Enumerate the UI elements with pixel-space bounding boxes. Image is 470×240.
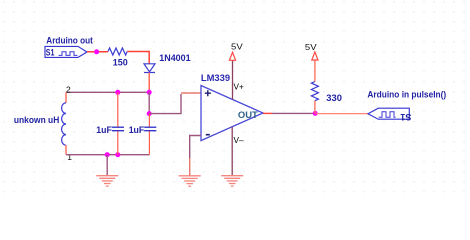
svg-text:V–: V– — [234, 136, 244, 145]
capacitor C1 plates — [112, 126, 124, 128]
wire OUT to junction — [263, 112, 272, 114]
bottom bus wire — [66, 154, 149, 156]
wire diode to top bus — [148, 73, 150, 93]
capacitor C2 plates — [144, 126, 156, 128]
ground 1 — [96, 176, 118, 186]
svg-text:5V: 5V — [305, 42, 317, 52]
junction dot1 — [147, 90, 152, 95]
capacitor C1 leads — [117, 92, 119, 127]
plus sign — [205, 90, 211, 96]
5V supply 2 — [312, 52, 318, 60]
svg-text:5V: 5V — [231, 41, 243, 51]
wire resistor to diode corner — [127, 52, 149, 64]
inductor L1 bottom lead — [65, 145, 67, 155]
wire junction to S2 — [315, 113, 368, 115]
pulse glyph S2 — [379, 112, 396, 118]
svg-text:LM339: LM339 — [201, 73, 230, 84]
svg-text:Arduino out: Arduino out — [46, 35, 93, 46]
wire to + input — [149, 94, 181, 114]
pin V+ wire — [232, 60, 234, 99]
junction dot under C1 — [115, 152, 120, 157]
connector S2 — [368, 108, 409, 119]
wire dot1 to dot2 — [148, 92, 150, 113]
pin V- wire — [231, 127, 233, 176]
pulse glyph S1 — [59, 52, 78, 56]
minus sign — [206, 134, 210, 136]
resistor R2 330 — [311, 82, 318, 101]
inductor L1 coil — [62, 103, 66, 145]
svg-text:Arduino in pulseIn(): Arduino in pulseIn() — [367, 89, 446, 99]
junction dot2 — [147, 111, 152, 116]
label S1 rotated — [400, 111, 412, 122]
svg-text:330: 330 — [326, 93, 342, 104]
svg-text:1N4001: 1N4001 — [159, 53, 191, 64]
svg-text:1uF: 1uF — [129, 125, 145, 136]
capacitor C2 leads — [148, 114, 150, 127]
junction dot A — [94, 49, 99, 54]
wire 5V to resistor R2 — [314, 60, 316, 81]
inductor L1 top lead — [65, 92, 67, 103]
junction dot out — [313, 111, 318, 116]
ground 2 — [179, 176, 201, 186]
junction dot over C1 — [115, 90, 120, 95]
diode D1 — [144, 64, 155, 72]
svg-text:V+: V+ — [234, 82, 244, 91]
op-amp U1 LM339 triangle — [201, 86, 263, 141]
svg-text:S1: S1 — [46, 48, 55, 59]
svg-text:2: 2 — [66, 84, 71, 94]
svg-text:1: 1 — [67, 152, 72, 162]
minus input stub to ground — [190, 136, 201, 159]
5V supply 1 — [229, 52, 235, 60]
wire resistor R2 to OUT node — [314, 101, 316, 114]
junction dot ground tap — [105, 152, 110, 157]
svg-text:150: 150 — [113, 57, 128, 68]
ground 3 — [221, 176, 243, 186]
resistor R1 150 — [108, 48, 127, 55]
svg-text:S1: S1 — [400, 111, 412, 122]
top bus wire — [66, 91, 149, 93]
svg-text:unkown uH: unkown uH — [14, 115, 60, 126]
connector S1 — [45, 46, 87, 57]
svg-text:OUT: OUT — [238, 110, 258, 121]
ground wire 1 — [106, 155, 108, 176]
svg-text:1uF: 1uF — [96, 125, 112, 136]
wire S1 to resistor — [87, 51, 108, 53]
